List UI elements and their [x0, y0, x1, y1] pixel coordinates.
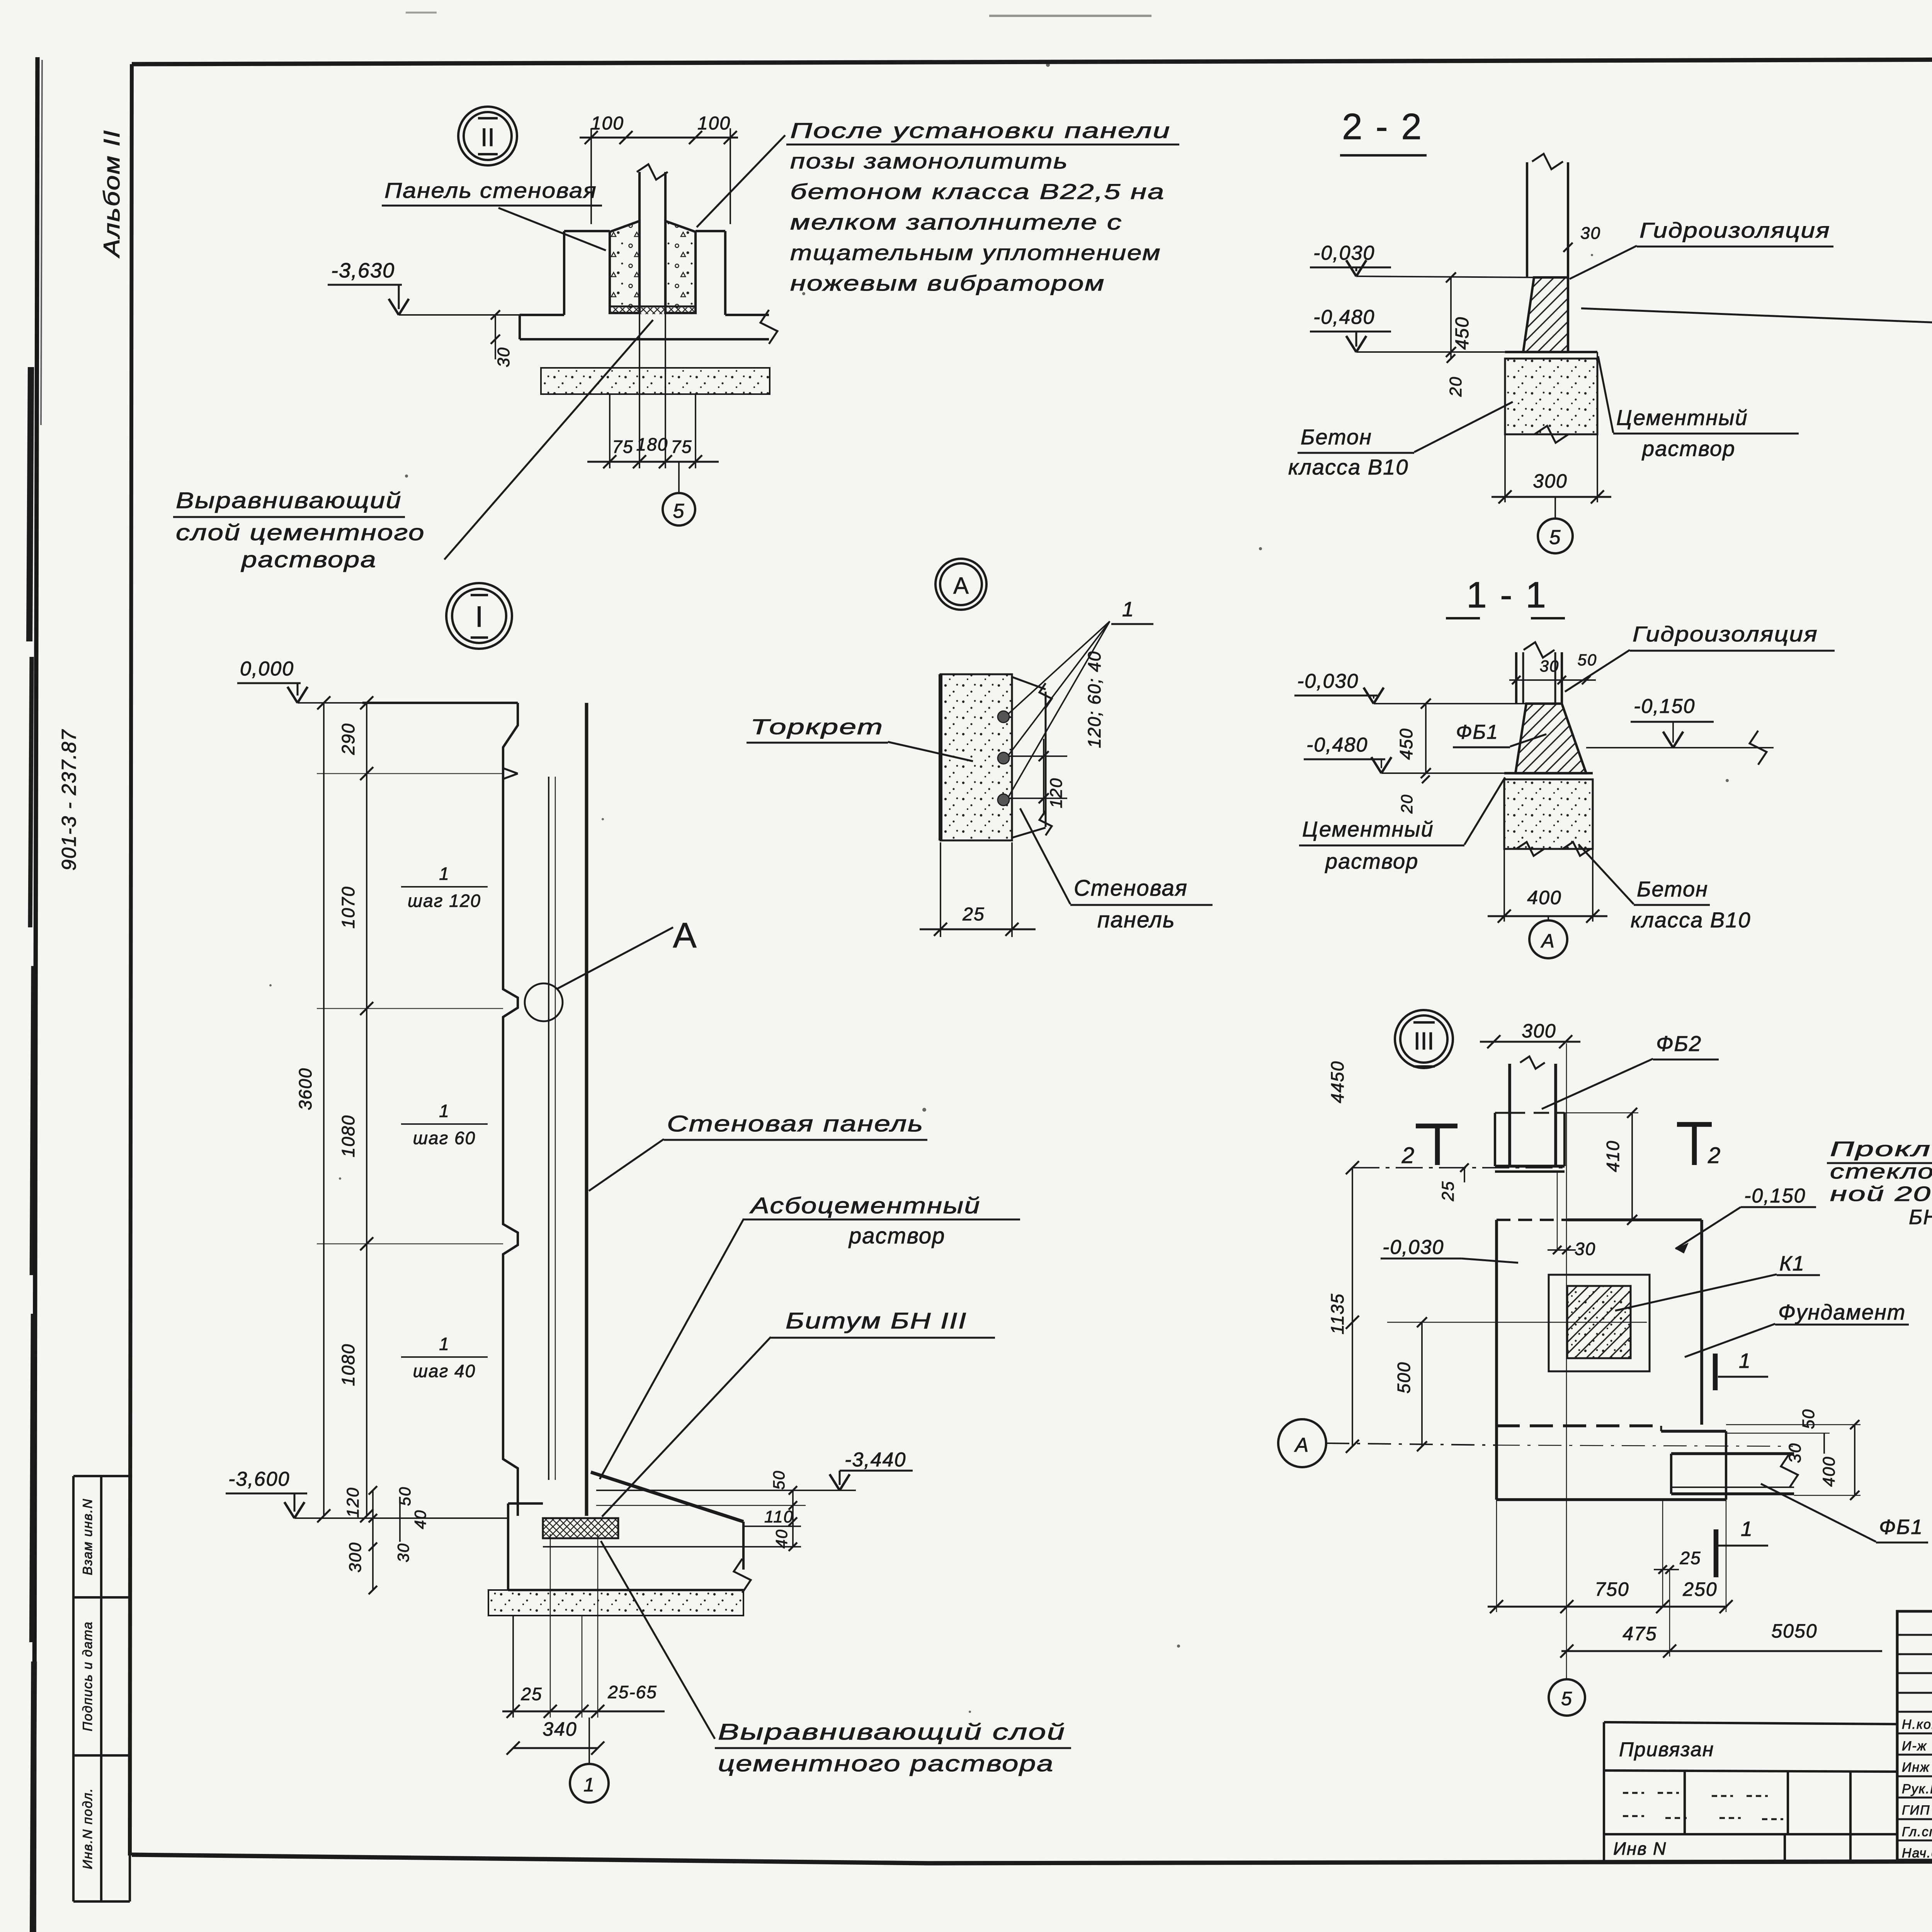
- svg-text:75: 75: [612, 437, 633, 457]
- svg-text:50: 50: [770, 1470, 788, 1490]
- svg-text:1: 1: [1741, 1517, 1753, 1541]
- svg-text:30: 30: [494, 347, 513, 367]
- svg-text:ФБ1: ФБ1: [1456, 721, 1498, 743]
- svg-text:-0,480: -0,480: [1313, 306, 1375, 328]
- svg-text:75: 75: [671, 437, 692, 457]
- svg-text:400: 400: [1820, 1456, 1838, 1486]
- svg-text:450: 450: [1452, 316, 1473, 350]
- svg-text:класса В10: класса В10: [1288, 455, 1409, 479]
- svg-text:Бетон: Бетон: [1637, 877, 1708, 901]
- svg-text:0,000: 0,000: [240, 658, 294, 680]
- svg-text:25: 25: [520, 1684, 542, 1704]
- svg-text:А: А: [1540, 930, 1555, 952]
- svg-text:К1: К1: [1779, 1252, 1805, 1275]
- svg-text:290: 290: [338, 723, 358, 755]
- svg-text:1: 1: [439, 864, 450, 884]
- svg-text:Инв.N подл.: Инв.N подл.: [80, 1787, 95, 1869]
- svg-text:Стеновая: Стеновая: [1074, 876, 1188, 901]
- svg-text:Инв N: Инв N: [1613, 1838, 1667, 1859]
- svg-text:120: 120: [344, 1487, 362, 1517]
- svg-text:ной 200мм на битуме: ной 200мм на битуме: [1830, 1182, 1932, 1206]
- svg-text:300: 300: [1522, 1020, 1556, 1042]
- svg-text:1: 1: [439, 1101, 450, 1121]
- svg-text:3600: 3600: [295, 1068, 315, 1110]
- svg-text:Выравнивающий слой: Выравнивающий слой: [718, 1719, 1066, 1745]
- svg-text:25-65: 25-65: [607, 1682, 657, 1702]
- svg-text:слой цементного: слой цементного: [176, 520, 425, 545]
- svg-text:ножевым вибратором: ножевым вибратором: [790, 271, 1105, 295]
- svg-text:Бетон: Бетон: [1301, 425, 1372, 449]
- svg-text:Н.контр: Н.контр: [1902, 1717, 1932, 1732]
- svg-text:И-ж: И-ж: [1902, 1739, 1927, 1753]
- svg-text:раствор: раствор: [1325, 849, 1418, 873]
- svg-text:250: 250: [1682, 1578, 1717, 1600]
- svg-text:раствор: раствор: [1641, 436, 1735, 461]
- svg-text:Стеновая панель: Стеновая панель: [667, 1111, 924, 1136]
- svg-text:100: 100: [591, 113, 624, 134]
- svg-text:50: 50: [396, 1486, 414, 1506]
- svg-text:50: 50: [1799, 1409, 1818, 1429]
- svg-text:класса В10: класса В10: [1631, 908, 1751, 932]
- svg-text:410: 410: [1603, 1140, 1623, 1172]
- svg-text:-3,440: -3,440: [845, 1449, 906, 1471]
- svg-text:475: 475: [1622, 1623, 1657, 1645]
- svg-text:300: 300: [1533, 470, 1567, 492]
- svg-text:5: 5: [1561, 1688, 1573, 1709]
- svg-text:20: 20: [1446, 376, 1465, 397]
- svg-text:5050: 5050: [1771, 1620, 1817, 1642]
- svg-text:180: 180: [636, 434, 668, 454]
- svg-text:500: 500: [1394, 1362, 1414, 1394]
- svg-text:Гидроизоляция: Гидроизоляция: [1639, 218, 1830, 242]
- svg-text:50: 50: [1578, 651, 1597, 669]
- svg-text:Асбоцементный: Асбоцементный: [749, 1193, 981, 1218]
- svg-text:раствор: раствор: [848, 1223, 945, 1248]
- svg-text:Торкрет: Торкрет: [750, 714, 884, 739]
- svg-text:1: 1: [583, 1774, 595, 1796]
- svg-text:30: 30: [1580, 224, 1601, 243]
- svg-text:1 - 1: 1 - 1: [1466, 575, 1548, 616]
- svg-text:После установки панели: После установки панели: [790, 118, 1171, 143]
- svg-text:4450: 4450: [1327, 1061, 1347, 1103]
- svg-text:40: 40: [411, 1510, 429, 1529]
- svg-text:Битум БН III: Битум БН III: [786, 1308, 967, 1333]
- svg-text:Фундамент: Фундамент: [1778, 1300, 1906, 1324]
- svg-text:-0,030: -0,030: [1383, 1236, 1444, 1259]
- svg-text:-3,630: -3,630: [331, 259, 395, 282]
- svg-text:Гидроизоляция: Гидроизоляция: [1633, 622, 1818, 646]
- svg-text:1: 1: [439, 1334, 450, 1354]
- svg-text:Гл.спец: Гл.спец: [1902, 1825, 1932, 1839]
- svg-text:400: 400: [1527, 887, 1561, 908]
- svg-text:5: 5: [673, 500, 685, 522]
- svg-text:25: 25: [962, 904, 985, 925]
- svg-text:30: 30: [394, 1543, 412, 1563]
- svg-text:Привязан: Привязан: [1619, 1738, 1714, 1761]
- svg-text:Нач.отд: Нач.отд: [1902, 1846, 1932, 1861]
- svg-text:Проклеить поласой: Проклеить поласой: [1830, 1138, 1932, 1161]
- svg-text:2: 2: [1708, 1143, 1721, 1168]
- svg-text:А: А: [953, 573, 969, 599]
- svg-text:30: 30: [1540, 657, 1560, 675]
- svg-text:Инж: Инж: [1902, 1760, 1930, 1775]
- svg-text:120: 120: [1047, 777, 1066, 808]
- svg-text:2: 2: [1401, 1143, 1415, 1168]
- svg-text:шаг 120: шаг 120: [408, 891, 481, 911]
- svg-text:Цементный: Цементный: [1616, 405, 1748, 430]
- svg-text:1: 1: [1739, 1349, 1751, 1372]
- svg-text:Альбом II: Альбом II: [99, 129, 124, 259]
- svg-text:1: 1: [1122, 598, 1134, 621]
- svg-text:120; 60; 40: 120; 60; 40: [1084, 651, 1104, 748]
- svg-text:Цементный: Цементный: [1302, 817, 1434, 841]
- svg-text:А: А: [1294, 1434, 1310, 1456]
- svg-text:1135: 1135: [1327, 1293, 1347, 1335]
- svg-text:Подпись и дата: Подпись и дата: [80, 1621, 95, 1731]
- svg-text:ФБ2: ФБ2: [1656, 1031, 1702, 1056]
- svg-text:1070: 1070: [338, 886, 358, 929]
- svg-text:раствора: раствора: [241, 547, 377, 572]
- svg-text:100: 100: [697, 113, 731, 134]
- svg-text:-0,030: -0,030: [1297, 670, 1359, 692]
- svg-text:Панель стеновая: Панель стеновая: [384, 178, 597, 202]
- svg-text:5: 5: [1549, 526, 1561, 549]
- svg-text:30: 30: [1786, 1443, 1804, 1463]
- svg-text:БН III: БН III: [1909, 1206, 1932, 1229]
- svg-text:25: 25: [1679, 1548, 1701, 1568]
- svg-text:III: III: [1413, 1027, 1434, 1055]
- svg-text:340: 340: [543, 1718, 577, 1740]
- svg-text:-0,150: -0,150: [1634, 695, 1695, 718]
- svg-text:позы замонолитить: позы замонолитить: [790, 149, 1068, 173]
- svg-text:-0,150: -0,150: [1744, 1185, 1806, 1207]
- svg-text:ФБ1: ФБ1: [1879, 1515, 1923, 1539]
- svg-text:панель: панель: [1097, 907, 1175, 932]
- svg-text:шаг 40: шаг 40: [413, 1361, 476, 1381]
- svg-text:300: 300: [346, 1542, 365, 1572]
- svg-text:20: 20: [1398, 794, 1416, 814]
- svg-text:мелком заполнителе с: мелком заполнителе с: [790, 210, 1122, 234]
- svg-text:1080: 1080: [338, 1115, 358, 1157]
- svg-text:II: II: [481, 123, 495, 151]
- svg-text:1080: 1080: [338, 1344, 358, 1386]
- svg-text:2 - 2: 2 - 2: [1342, 106, 1423, 147]
- svg-text:ГИП: ГИП: [1902, 1803, 1930, 1818]
- svg-text:901-3 - 237.87: 901-3 - 237.87: [58, 729, 80, 871]
- svg-text:750: 750: [1595, 1578, 1629, 1600]
- svg-text:бетоном класса В22,5 на: бетоном класса В22,5 на: [790, 179, 1165, 204]
- svg-text:А: А: [673, 916, 697, 955]
- svg-text:Взам инв.N: Взам инв.N: [80, 1498, 95, 1575]
- svg-text:-0,480: -0,480: [1306, 734, 1368, 756]
- svg-text:шаг 60: шаг 60: [413, 1128, 476, 1148]
- svg-text:Выравнивающий: Выравнивающий: [176, 488, 402, 513]
- svg-text:тщательным уплотнением: тщательным уплотнением: [790, 240, 1161, 265]
- svg-text:цементного раствора: цементного раствора: [718, 1751, 1054, 1776]
- svg-text:30: 30: [1575, 1239, 1596, 1259]
- svg-text:-3,600: -3,600: [228, 1468, 290, 1490]
- svg-text:I: I: [475, 600, 483, 633]
- svg-text:Рук.Бр: Рук.Бр: [1902, 1782, 1932, 1796]
- svg-text:25: 25: [1439, 1181, 1458, 1202]
- svg-text:40: 40: [772, 1529, 791, 1549]
- svg-text:450: 450: [1396, 728, 1416, 760]
